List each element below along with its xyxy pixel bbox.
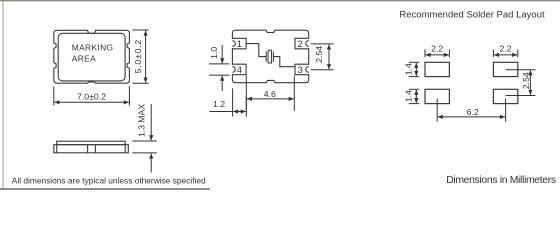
dimension 5.0±0.2 [133, 30, 149, 83]
frame border top [0, 0, 560, 2]
dimension 2.54 (pad layout) [506, 70, 536, 96]
svg-text:1.0: 1.0 [209, 47, 219, 59]
svg-text:4: 4 [237, 64, 242, 75]
table rule bottom-left [0, 188, 210, 190]
dimension 4.6 [246, 76, 294, 111]
package side profile [54, 141, 129, 153]
pad 4 (bottom view, bottom-left) [232, 64, 246, 75]
dimension 2.2 (left pad) [425, 49, 449, 57]
pad 2 (bottom view, top-right) [295, 38, 309, 49]
svg-text:5.0±0.2: 5.0±0.2 [133, 39, 143, 74]
dimension 2.2 (right pad) [493, 49, 517, 57]
svg-text:6.2: 6.2 [467, 107, 479, 117]
castellation gaps in bottom-view edges [232, 39, 308, 74]
wire pad1 to crystal [246, 44, 266, 57]
dimension 7.0±0.2 [54, 86, 130, 105]
package outline (bottom view) [232, 30, 308, 82]
solder pad bottom-left [425, 89, 449, 103]
solder pad top-right [493, 62, 517, 76]
svg-text:1.2: 1.2 [213, 99, 225, 109]
package lid (inner rounded rect) [58, 33, 125, 81]
dimension 1.2 [210, 88, 247, 116]
dimension 1.3 MAX [132, 104, 157, 173]
svg-text:7.0±0.2: 7.0±0.2 [77, 92, 106, 102]
svg-text:All dimensions are typical unl: All dimensions are typical unless otherw… [12, 175, 206, 185]
svg-text:Dimensions in Millimeters: Dimensions in Millimeters [446, 175, 556, 186]
svg-text:2.2: 2.2 [500, 44, 512, 54]
frame border left [2, 1, 4, 190]
svg-text:Recommended Solder Pad Layout: Recommended Solder Pad Layout [399, 9, 545, 20]
solder pad top-left [425, 62, 449, 76]
dimension 2.54 (bottom view) [311, 44, 334, 70]
svg-text:MARKING: MARKING [72, 43, 114, 53]
pad 1 (bottom view, top-left) [232, 38, 246, 49]
svg-text:1: 1 [237, 38, 242, 49]
svg-text:4.6: 4.6 [264, 89, 276, 99]
solder pad bottom-right [493, 89, 517, 103]
svg-text:AREA: AREA [72, 54, 96, 64]
svg-text:2: 2 [298, 38, 303, 49]
crystal symbol [266, 50, 273, 63]
package outline (top view, with castellation notches) [54, 30, 130, 83]
dimension 1.4 (bottom-left pad) [409, 89, 419, 103]
svg-text:2.54: 2.54 [314, 46, 324, 63]
svg-text:3: 3 [298, 64, 303, 75]
wire crystal to pad 3 [273, 57, 295, 67]
svg-text:1.3 MAX: 1.3 MAX [137, 104, 147, 138]
svg-text:2.2: 2.2 [431, 44, 443, 54]
svg-text:1.4: 1.4 [403, 90, 413, 102]
pad 3 (bottom view, bottom-right) [295, 64, 309, 75]
dimension 1.4 (top-left pad) [409, 62, 419, 76]
svg-text:1.4: 1.4 [403, 63, 413, 75]
dimension 6.2 [437, 99, 505, 122]
dimension 1.0 [209, 45, 230, 91]
svg-text:2.54: 2.54 [521, 72, 531, 89]
